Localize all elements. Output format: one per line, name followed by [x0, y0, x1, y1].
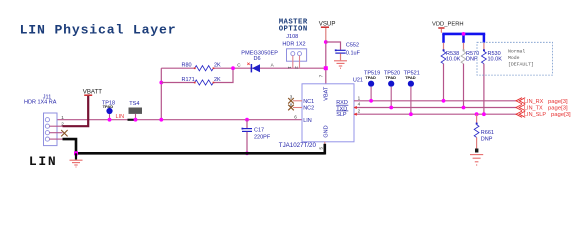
svg-text:1: 1 — [61, 115, 64, 120]
connector J108 MASTER OPTION — [279, 18, 308, 69]
power VBATT — [83, 89, 102, 96]
node junction R171 tap — [159, 81, 163, 85]
node junction diode wire meets VSUP vertical — [324, 66, 328, 70]
red input arrow SLP — [354, 113, 357, 116]
node junction C552 tap — [324, 40, 328, 44]
svg-text:2: 2 — [358, 108, 361, 113]
svg-text:10.0K: 10.0K — [446, 57, 461, 63]
wire VBATT maroon to J11 pin 2 — [63, 96, 89, 126]
node junction at right of R80 branch — [231, 66, 235, 70]
svg-text:C17: C17 — [254, 128, 264, 134]
resistor R80 — [195, 66, 214, 71]
wire TXD line (pin 4) — [354, 107, 517, 109]
testpoint TP521 — [404, 71, 420, 116]
svg-text:1: 1 — [358, 95, 361, 100]
wire ground bus (thick black) — [63, 139, 325, 153]
ground (R661) — [475, 149, 478, 153]
wire SLP line (pin 2) — [354, 113, 517, 115]
svg-text:GND: GND — [324, 125, 330, 137]
ground (C552) — [334, 61, 347, 68]
net flag LIN_TX — [516, 104, 525, 110]
svg-text:LIN_RX: LIN_RX — [524, 99, 544, 105]
svg-text:OPTION: OPTION — [279, 26, 308, 34]
wire LIN horizontal from J11 pin1 to U21 LIN pin — [49, 119, 302, 121]
svg-text:LIN: LIN — [303, 118, 312, 124]
svg-text:LIN_SLP: LIN_SLP — [524, 112, 546, 118]
svg-text:HDR 1X2: HDR 1X2 — [282, 41, 305, 47]
no-connect X on J11 pin 3 — [61, 130, 67, 136]
testpoint TP18 — [102, 100, 115, 121]
red input arrow TXD — [354, 106, 357, 109]
capacitor C552 — [326, 42, 361, 60]
svg-text:D6: D6 — [254, 56, 261, 62]
svg-text:3: 3 — [290, 94, 293, 99]
svg-text:VDD_PERH: VDD_PERH — [432, 22, 464, 28]
svg-text:7: 7 — [319, 74, 324, 77]
svg-text:DNP: DNP — [481, 137, 493, 143]
pin U21 GND (pin 5) — [324, 142, 326, 144]
svg-text:2K: 2K — [214, 63, 221, 69]
svg-text:1: 1 — [287, 66, 292, 69]
svg-text:5: 5 — [318, 147, 323, 150]
resistor R171 — [195, 80, 214, 85]
power VSUP — [319, 20, 336, 42]
svg-text:0.1uF: 0.1uF — [346, 50, 361, 56]
svg-text:R171: R171 — [182, 77, 195, 83]
svg-text:LIN: LIN — [116, 114, 125, 120]
svg-text:10.0K: 10.0K — [488, 57, 503, 63]
net flag LIN_RX — [516, 98, 525, 104]
pin NC2 stub with no-connect X — [293, 107, 302, 109]
resistor R570 DNP — [461, 43, 479, 110]
svg-text:HDR 1X4 RA: HDR 1X4 RA — [24, 99, 57, 105]
svg-text:TS4: TS4 — [129, 101, 139, 107]
svg-text:[DEFAULT]: [DEFAULT] — [508, 62, 534, 68]
suppressor TS4 — [128, 101, 143, 122]
svg-text:TPAD: TPAD — [103, 104, 114, 109]
normal mode default dashed box — [477, 42, 553, 75]
svg-text:VSUP: VSUP — [319, 20, 336, 27]
svg-text:page[3]: page[3] — [548, 99, 568, 105]
svg-text:U21: U21 — [353, 78, 363, 84]
svg-text:LIN Physical Layer: LIN Physical Layer — [20, 22, 177, 37]
diode D6 PMEG3050EP — [237, 50, 278, 72]
svg-text:SLP: SLP — [336, 112, 347, 118]
svg-text:2K: 2K — [214, 77, 221, 83]
svg-text:R661: R661 — [481, 130, 494, 136]
svg-text:2: 2 — [294, 66, 299, 69]
node junction bus at J11 ground — [74, 151, 78, 155]
connector J11 HDR 1X4 RA — [24, 95, 64, 146]
svg-text:J108: J108 — [286, 34, 298, 40]
svg-text:TPAD: TPAD — [385, 75, 396, 80]
svg-text:TPAD: TPAD — [365, 75, 376, 80]
svg-text:LIN: LIN — [29, 154, 58, 169]
svg-text:6: 6 — [294, 114, 297, 119]
svg-text:LIN_TX: LIN_TX — [524, 106, 543, 112]
wire R171 branch y=82.5 — [161, 82, 194, 84]
svg-text:Mode: Mode — [508, 55, 520, 61]
svg-text:4: 4 — [358, 102, 361, 107]
capacitor C17 — [242, 118, 271, 155]
wire J108 pin stubs — [292, 55, 294, 68]
testpoint TP520 — [384, 71, 400, 110]
svg-text:page[3]: page[3] — [551, 112, 571, 118]
svg-text:C552: C552 — [346, 43, 359, 49]
wire RXD line (pin 1) — [354, 100, 517, 102]
wire R-network left vertical to LIN line — [160, 68, 162, 120]
svg-text:NC2: NC2 — [303, 106, 314, 112]
resistor R538 10.0K — [441, 43, 461, 103]
svg-text:Normal: Normal — [508, 49, 525, 55]
svg-text:TJA1027T/20: TJA1027T/20 — [279, 142, 317, 149]
net flag LIN_SLP — [516, 111, 525, 117]
IC U21 TJA1027T/20 — [279, 74, 363, 148]
power VDD_PERH — [432, 22, 464, 33]
wire VSUP vertical to U21 VBAT — [325, 42, 327, 84]
ground (J11 / bus) — [75, 153, 77, 159]
svg-text:TPAD: TPAD — [405, 75, 416, 80]
wire top branch y=68.2 from R-net to VSUP vertical — [161, 67, 194, 69]
resistor R661 DNP — [474, 112, 494, 148]
svg-text:R80: R80 — [182, 63, 192, 69]
node junction on blue bar — [462, 32, 466, 36]
svg-text:NC1: NC1 — [303, 99, 314, 105]
svg-text:220PF: 220PF — [254, 135, 271, 141]
wire VDD_PERH blue bus bar — [442, 33, 485, 36]
pin NC1 stub with no-connect X — [293, 100, 302, 102]
testpoint TP519 — [364, 71, 380, 103]
svg-text:VBAT: VBAT — [324, 86, 330, 101]
node junction R-net on LIN line — [159, 118, 163, 122]
svg-text:DNP: DNP — [466, 57, 478, 63]
svg-text:page[3]: page[3] — [548, 106, 568, 112]
resistor R530 10.0K — [482, 43, 503, 116]
